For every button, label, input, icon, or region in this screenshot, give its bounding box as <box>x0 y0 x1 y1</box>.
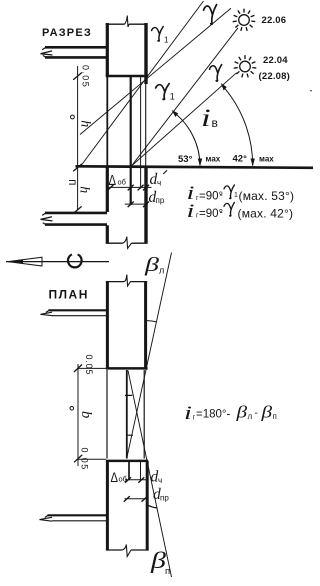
plan dim extension reveal <box>140 462 142 480</box>
plan glazing mullion ticks <box>125 395 133 435</box>
plan dim extension outer <box>146 462 148 499</box>
arc β_л <box>147 321 157 322</box>
window glazing line <box>130 77 132 205</box>
svg-text:п: п <box>273 412 277 421</box>
svg-text:мах: мах <box>206 155 221 164</box>
lower wall inner face <box>106 166 109 212</box>
svg-text:-: - <box>220 208 223 219</box>
lower pier break mark <box>122 545 131 557</box>
svg-text:β: β <box>260 403 272 422</box>
lower floor slab (section) <box>45 213 107 225</box>
plan window inner face line <box>106 370 108 459</box>
sun ray through lintel corner at 53 <box>80 1 204 167</box>
dimension tick at sill <box>73 164 82 171</box>
plan dim extension line top <box>78 367 106 369</box>
arc β_п <box>146 504 158 508</box>
svg-text:0.05: 0.05 <box>84 355 94 376</box>
svg-text:(22.08): (22.08) <box>259 71 291 82</box>
label γ middle <box>210 65 222 82</box>
view direction line <box>6 261 109 263</box>
sun ray from sill point at 42 (to sun 22.04) <box>132 73 237 166</box>
upper pier bottom edge <box>106 367 148 370</box>
sill / working plane line <box>76 166 314 168</box>
section dimension line column <box>77 66 79 211</box>
svg-text:h: h <box>77 186 92 193</box>
top floor slab (section) <box>45 47 107 57</box>
upper wall inner face <box>106 23 109 77</box>
svg-text:пр: пр <box>156 196 165 205</box>
lower wall outer face <box>144 166 147 244</box>
top slab break mark <box>41 51 53 55</box>
svg-text:22.04: 22.04 <box>263 55 288 66</box>
svg-text:в: в <box>212 116 218 130</box>
lower partition wall (plan) <box>48 514 107 516</box>
sun symbol 22.06 <box>239 15 250 26</box>
svg-text:пр: пр <box>160 494 169 503</box>
label γ top <box>204 5 217 25</box>
label γ1 upper <box>152 26 164 41</box>
plan tick top <box>74 365 82 373</box>
svg-text:42°: 42° <box>233 153 248 164</box>
upper wall break mark <box>125 16 130 28</box>
view direction circle mark <box>68 254 82 267</box>
upper pier break mark <box>124 275 131 287</box>
lower partition break mark <box>40 517 53 521</box>
arc 42 deg <box>222 85 253 166</box>
svg-text:РАЗРЕЗ: РАЗРЕЗ <box>42 27 92 39</box>
view direction filled tip <box>7 259 24 263</box>
window reveal line <box>140 77 142 189</box>
plan dimension d_пр line <box>125 498 148 500</box>
svg-text:β: β <box>235 403 247 422</box>
svg-text:i: i <box>187 201 195 222</box>
arc 53 deg <box>173 111 200 165</box>
plan text b with o subscript <box>70 407 74 411</box>
upper partition wall (plan) <box>49 309 107 311</box>
lower pier left face <box>106 461 109 551</box>
lower pier bottom edge <box>106 549 149 551</box>
lower slab break mark <box>41 217 53 221</box>
dimension tick at slab <box>73 206 81 213</box>
svg-text:0.05: 0.05 <box>80 448 90 471</box>
svg-text:1: 1 <box>164 36 169 45</box>
lintel underside <box>106 75 148 77</box>
ray β_п <box>128 371 172 578</box>
svg-text:b: b <box>78 411 94 418</box>
svg-text:-: - <box>255 408 258 419</box>
svg-text:ч: ч <box>157 179 161 188</box>
upper pier left face (plan) <box>106 281 109 368</box>
plan dimension d_ч line <box>125 479 147 481</box>
svg-text:ч: ч <box>158 476 162 485</box>
upper partition break mark <box>41 312 53 316</box>
svg-text:β: β <box>144 254 160 276</box>
ray β_л <box>127 253 172 459</box>
svg-text:л: л <box>248 412 253 421</box>
upper pier top edge <box>106 281 147 283</box>
svg-text:Δ: Δ <box>109 171 117 188</box>
plan glazing line <box>126 370 128 459</box>
svg-text:22.06: 22.06 <box>262 15 287 26</box>
svg-text:1: 1 <box>234 192 238 199</box>
view direction open arrow <box>8 257 42 266</box>
upper wall top edge <box>106 23 148 25</box>
svg-text:i: i <box>201 104 211 132</box>
sun ray from sill point at 53 (to sun 22.06) <box>132 28 238 166</box>
window inner face line <box>106 77 108 167</box>
plan dimension column <box>77 364 79 466</box>
svg-text:п: п <box>165 566 170 577</box>
label γ1 lower <box>156 83 170 99</box>
svg-text:1: 1 <box>170 92 175 102</box>
svg-text:ПЛАН: ПЛАН <box>49 288 89 302</box>
svg-text:Δ: Δ <box>111 470 119 485</box>
lower pier top edge <box>106 460 148 463</box>
window outer reveal line <box>145 84 147 166</box>
lower wall bottom edge <box>106 242 148 244</box>
upper pier right face (plan) <box>144 281 147 368</box>
dimension text h with o subscript <box>71 115 75 119</box>
svg-text:об: об <box>119 475 127 484</box>
dimension line d_пр <box>125 203 148 205</box>
stray tick on sill <box>163 170 167 174</box>
svg-text:об: об <box>118 178 126 187</box>
svg-text:53°: 53° <box>178 154 193 165</box>
plan window reveal line <box>143 370 145 459</box>
sun ray through lintel corner at 42 <box>80 8 231 134</box>
svg-text:-: - <box>220 190 223 201</box>
svg-text:л: л <box>159 266 164 276</box>
svg-text:п: п <box>66 179 78 185</box>
plan tick bottom <box>74 455 82 462</box>
upper wall outer face <box>144 23 147 84</box>
svg-text:мах: мах <box>259 155 274 164</box>
dimension line d_ч <box>109 186 152 188</box>
svg-text:0.05: 0.05 <box>81 65 91 88</box>
svg-text:=180°-: =180°- <box>196 409 231 421</box>
lower pier extension line <box>78 458 106 460</box>
svg-text:(мах. 53°): (мах. 53°) <box>239 189 295 203</box>
scan speck <box>310 90 312 92</box>
svg-text:(мах. 42°): (мах. 42°) <box>238 207 294 221</box>
svg-text:i: i <box>184 403 192 424</box>
lower pier right face <box>146 461 149 551</box>
lower wall break mark <box>123 237 132 249</box>
dimension tick at lintel <box>73 73 82 80</box>
sun symbol 22.04 <box>240 61 251 72</box>
plan dim extension glass <box>128 462 130 480</box>
lower wall below slab <box>106 225 109 243</box>
